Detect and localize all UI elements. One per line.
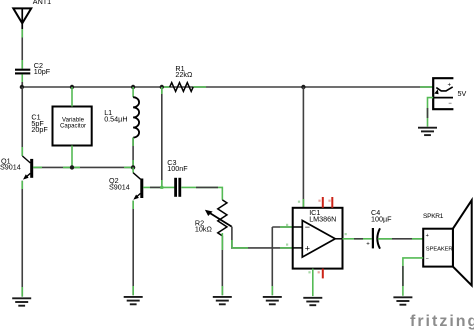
pin IC1 unconnected top 1 — [322, 197, 324, 208]
svg-text:0.54µH: 0.54µH — [104, 114, 127, 123]
wire IC1 gnd pin to ground — [312, 269, 314, 297]
junction node bus/IC1 vcc — [301, 85, 305, 89]
svg-text:SPKR1: SPKR1 — [423, 213, 444, 220]
antenna ANT1 — [13, 0, 51, 29]
ground minus input — [263, 297, 282, 304]
svg-text:10kΩ: 10kΩ — [195, 224, 213, 233]
capacitor C3 — [167, 158, 188, 197]
svg-text:+: + — [448, 82, 452, 88]
wire L1 bottom — [132, 138, 134, 168]
capacitor C4 — [366, 208, 392, 249]
wire Q1 emitter to ground — [21, 181, 23, 297]
resistor R1 — [170, 64, 193, 92]
wire C4 to speaker — [378, 238, 423, 240]
svg-text:−: − — [448, 101, 452, 107]
ground IC1 — [303, 298, 322, 305]
svg-text:−: − — [426, 256, 429, 262]
ground Q2 — [124, 297, 143, 304]
junction node bus/L1 — [131, 85, 135, 89]
wire IC1 minus input to ground drop — [272, 227, 292, 295]
svg-text:100nF: 100nF — [167, 164, 188, 173]
pin IC1 unconnected top 2 — [331, 197, 333, 208]
wire C1 bottom pin — [71, 146, 73, 168]
wire R2 wiper to IC1 plus input — [232, 227, 293, 248]
svg-text:+: + — [366, 242, 370, 248]
wire C1 top pin — [71, 87, 73, 107]
junction node bus/C1 — [70, 85, 74, 89]
junction node bus/C2 corner — [20, 85, 24, 89]
wire 5V minus to ground — [428, 98, 434, 127]
wire Q2 emitter to ground — [132, 201, 134, 296]
speaker SPKR1 — [423, 200, 472, 285]
ground Q1 — [12, 298, 31, 305]
wire Q2 base to C3 — [143, 186, 175, 188]
transistor Q2 — [109, 167, 143, 199]
wire IC1 output to C4 — [343, 238, 372, 240]
junction node C1 bottom — [70, 165, 74, 169]
svg-text:22kΩ: 22kΩ — [175, 70, 193, 79]
op-amp IC1 LM386N — [293, 208, 343, 269]
svg-text:20pF: 20pF — [31, 125, 48, 134]
wire bus junction down to C3 node — [161, 87, 163, 187]
wire bus to IC1 vcc pin — [302, 87, 304, 208]
ground R2 — [213, 297, 232, 304]
potentiometer R2 — [195, 200, 232, 236]
svg-text:10pF: 10pF — [34, 67, 51, 76]
wire C3 to R2 top — [181, 187, 222, 200]
wire Q1 collector drop — [21, 87, 23, 156]
svg-text:S9014: S9014 — [109, 182, 130, 191]
capacitor C2 — [15, 61, 51, 76]
node C3/R1-branch junction — [160, 186, 163, 189]
svg-text:Capacitor: Capacitor — [60, 123, 86, 130]
pin IC1 unconnected bottom — [322, 269, 324, 279]
svg-text:+: + — [426, 233, 429, 239]
svg-text:ANT1: ANT1 — [33, 0, 51, 6]
junction node L1/Q2 collector — [131, 165, 135, 169]
wire antenna to C2 — [21, 29, 23, 69]
power supply 5V — [433, 78, 466, 109]
svg-text:SPEAKER: SPEAKER — [426, 247, 453, 253]
wire Q1 base to Q2 collector node — [33, 166, 133, 168]
wire C2 to bus corner — [21, 74, 23, 87]
svg-text:fritzing: fritzing — [410, 313, 474, 330]
ground 5V — [418, 128, 437, 135]
junction node bus/R1 — [160, 85, 164, 89]
svg-text:LM386N: LM386N — [309, 215, 336, 224]
wire top bus — [22, 86, 433, 88]
transistor Q1 — [0, 156, 33, 180]
svg-text:100µF: 100µF — [371, 214, 392, 223]
pin number marks IC1 — [286, 200, 347, 274]
ground speaker — [393, 297, 412, 304]
inductor L1 — [104, 87, 139, 138]
svg-text:+: + — [305, 244, 310, 254]
svg-text:5V: 5V — [458, 89, 467, 98]
wire speaker minus to ground — [403, 258, 423, 296]
svg-text:S9014: S9014 — [0, 163, 21, 172]
variable capacitor C1 — [31, 107, 91, 146]
wire R2 bottom to ground — [221, 233, 223, 295]
